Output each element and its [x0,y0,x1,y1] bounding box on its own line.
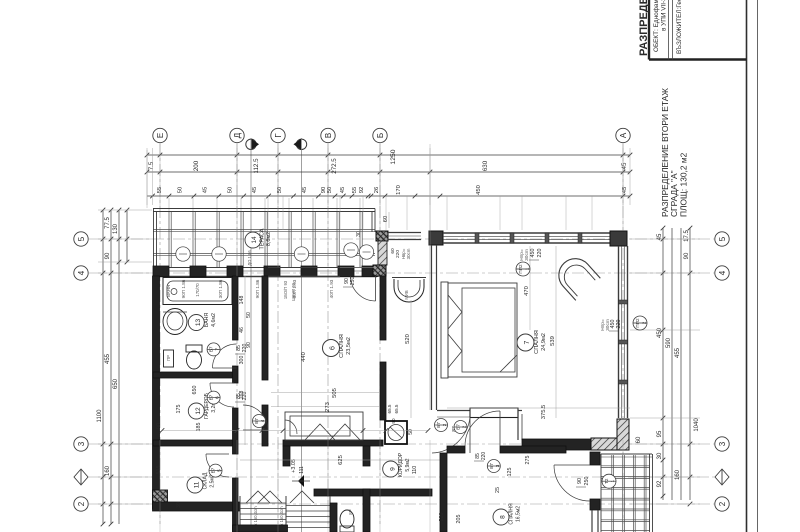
title block object line [653,0,668,52]
svg-text:5: 5 [718,236,727,241]
porch top window band [388,233,421,240]
svg-text:50: 50 [327,187,333,193]
axis bubble А [616,128,630,524]
svg-text:45: 45 [202,187,208,193]
svg-text:24,9м2: 24,9м2 [541,333,547,351]
SE wing west wall with terrace door [590,452,600,532]
svg-text:4: 4 [718,270,727,275]
lower wing north wall solid [522,439,592,450]
right dimension lines [636,226,700,507]
room 6 terrace door opening [340,268,376,302]
svg-text:455: 455 [675,347,681,358]
room 7 north window wall [443,233,610,243]
svg-text:470: 470 [524,286,530,296]
svg-text:275: 275 [525,456,531,465]
svg-text:1100: 1100 [97,409,103,423]
svg-text:3: 3 [495,464,500,467]
sheet trim edge line [757,0,759,532]
svg-text:4,6м2: 4,6м2 [211,313,217,327]
svg-text:ВЪЗЛОЖИТЕЛ:Георги Ив.: ВЪЗЛОЖИТЕЛ:Георги Ив. [676,0,683,54]
axis line А [622,143,624,524]
svg-text:220: 220 [481,452,487,461]
svg-text:30П 1.86: 30П 1.86 [218,279,223,298]
svg-text:В: В [324,133,333,138]
svg-text:ШКУП 30: ШКУП 30 [291,282,296,300]
svg-text:Б7: Б7 [456,424,461,430]
svg-text:110: 110 [412,466,418,475]
washbasin bath 13 [163,309,187,335]
svg-text:50: 50 [177,187,183,193]
left dimension lines [97,208,129,527]
lower wing north wall hatched L block [591,419,629,450]
west wall corner block SW [153,490,168,509]
washer box bath 13 [164,350,174,367]
south wall of rooms 11 [153,502,240,511]
door label B7-4 [253,415,266,428]
svg-text:6: 6 [330,346,337,350]
interior vertical guide lines lower [160,440,623,532]
room 7 label [517,330,547,354]
svg-text:МИВ: МИВ [404,290,409,299]
svg-text:4: 4 [77,270,86,275]
svg-text:13: 13 [195,319,202,327]
corridor dim chain [239,276,252,445]
top band extension lines [147,148,630,205]
entry strip window labels [390,248,411,259]
svg-text:112.5: 112.5 [253,158,260,174]
room 6 south wall [283,440,383,446]
svg-text:90: 90 [321,187,327,193]
svg-text:ПР: ПР [166,355,171,361]
hall lower walls [233,489,371,532]
svg-text:30cm: 30cm [406,248,411,259]
svg-text:300: 300 [239,356,245,365]
svg-text:450: 450 [530,249,536,258]
svg-text:30: 30 [356,231,362,237]
svg-text:90: 90 [577,478,583,484]
room 12 label [188,392,217,419]
room 7 armchair [552,252,600,300]
svg-text:КОРИДОР: КОРИДОР [398,452,404,477]
svg-text:x 160,4cm: x 160,4cm [279,506,284,526]
drawing title lines [660,88,689,217]
room 7 door arc [432,417,470,453]
svg-text:55: 55 [157,187,163,193]
svg-text:3: 3 [77,441,86,446]
svg-text:148: 148 [239,296,245,305]
dim 60 porch [383,212,389,228]
axis line diamond [88,476,715,478]
terrace border [153,209,375,268]
svg-text:25: 25 [495,487,501,493]
section cut marker left [246,138,259,532]
window labels top (small texts near top of rooms) [247,250,296,301]
svg-text:77.5: 77.5 [105,217,111,229]
room 7 east window wall [619,246,628,418]
svg-text:175: 175 [176,405,182,414]
svg-text:8: 8 [500,515,507,519]
top dimension line axes spacing [145,158,633,175]
svg-text:6: 6 [215,396,220,399]
WC toilet at hall [340,509,354,532]
svg-text:630: 630 [482,160,489,171]
room 8 north wall segments [447,446,566,453]
svg-text:90П 1.86: 90П 1.86 [181,279,186,298]
svg-text:8Р: 8Р [348,509,353,514]
section cut marker right [294,138,307,532]
svg-text:Т2: Т2 [604,478,609,484]
toilet bath 13 [186,345,202,369]
WC east wall [429,245,431,410]
room 6 door arc (from corridor) [243,405,268,430]
door label B7-2 room 7 [435,419,459,432]
svg-text:200: 200 [193,160,200,171]
svg-text:2: 2 [442,423,447,426]
svg-text:12: 12 [195,407,202,415]
svg-text:Б7: Б7 [489,463,494,469]
level mark +3.05 [291,459,310,487]
room 12 door arc [210,383,234,407]
axis diamond marker left [74,469,88,485]
svg-text:440: 440 [301,352,307,362]
svg-text:1040: 1040 [694,418,700,432]
hall door jamb stubs [283,446,370,466]
svg-text:Е: Е [156,133,165,138]
corridor 9 label [383,452,411,477]
svg-text:90: 90 [684,252,690,259]
svg-text:272.5: 272.5 [331,158,338,174]
svg-text:2: 2 [642,321,647,324]
svg-text:БАНЯ: БАНЯ [204,313,210,327]
axis line Г [277,143,279,524]
svg-text:ТЕРАСА: ТЕРАСА [260,228,266,249]
svg-text:55: 55 [352,187,358,193]
svg-text:26: 26 [374,187,380,193]
axis bubble В [321,128,335,524]
axis bubble 4 right [715,266,729,280]
svg-text:ПП2: ПП2 [518,264,523,274]
room 11 label [187,472,216,493]
svg-text:92: 92 [657,480,663,487]
svg-text:160: 160 [105,465,111,476]
svg-text:Б7: Б7 [254,418,259,424]
svg-text:45: 45 [302,187,308,193]
sheet inner border line [746,0,748,532]
svg-text:45: 45 [340,187,346,193]
svg-text:4: 4 [260,419,265,422]
svg-text:90: 90 [156,423,162,429]
axis bubble 3 left [74,437,88,451]
window label ПП2-2 [633,316,647,330]
svg-text:520: 520 [405,334,411,344]
corridor dims [240,455,440,474]
door label B7-5 [209,464,222,477]
svg-text:РАЗПРЕДЕЛЕНИЕ: РАЗПРЕДЕЛЕНИЕ [638,0,650,56]
axis line 5 [89,238,714,240]
corridor vertical dim [405,300,411,418]
west exterior wall [153,276,160,504]
svg-text:40П 1.93: 40П 1.93 [329,279,334,298]
room 7 bed [441,282,517,378]
shower box room 6 SE [385,421,414,444]
axis bubble 4 left [74,266,88,280]
svg-text:СПАЛНЯ: СПАЛНЯ [534,330,540,354]
svg-text:50: 50 [227,187,233,193]
svg-text:520: 520 [439,513,445,522]
svg-text:1: 1 [610,479,615,482]
svg-text:90П 1.86: 90П 1.86 [255,279,260,298]
room 11 dims [156,466,182,509]
svg-text:625: 625 [338,455,344,465]
svg-text:Б: Б [376,133,385,138]
axis bubble Г [271,128,285,524]
svg-text:+3.05: +3.05 [291,459,297,473]
axis bubble 5 right [715,232,729,246]
room 7 corner pier NW [429,231,443,245]
axis bubble Е [153,128,167,524]
svg-text:23,5м2: 23,5м2 [346,337,352,355]
svg-text:220: 220 [537,249,543,258]
axis line 4 [89,272,714,274]
entry strip bottom dims [387,404,399,423]
title block box [649,0,747,60]
svg-text:ПП2: ПП2 [635,318,640,328]
svg-text:539: 539 [550,336,556,346]
window height labels room 7 north [519,249,543,261]
svg-text:СКЛАД: СКЛАД [203,472,209,489]
axis bubble Б [373,128,387,524]
svg-text:46: 46 [239,327,245,333]
room 12 dims [156,386,202,432]
axis line 2 [89,503,714,505]
room 7 west wall [432,245,437,410]
svg-text:СПАЛНЯ: СПАЛНЯ [509,503,515,525]
axis bubble 2 left [74,497,88,511]
window frame blocks [153,266,378,277]
left band extension lines [98,210,152,504]
room 6 label [323,334,353,358]
svg-text:7: 7 [215,348,220,351]
bath 13 door arc [213,344,237,368]
SE terrace border [601,454,653,532]
room 8 door arc [465,411,500,446]
door label B7-7 [207,343,248,356]
svg-text:17.5: 17.5 [684,230,690,242]
axis diamond marker right [715,469,729,485]
room 8 west wall [440,453,447,532]
svg-text:9: 9 [389,467,396,471]
svg-text:170: 170 [396,185,402,195]
door label B7-2b [454,421,467,434]
staircase [240,491,330,532]
svg-text:16,5м2: 16,5м2 [516,506,522,522]
svg-text:Б7: Б7 [209,394,214,400]
terrace label circle ТЕРАСА [245,228,272,249]
axis line 3 [89,443,714,445]
svg-text:220: 220 [616,320,622,329]
door size 90/250 [576,477,590,488]
terrace door arc room 8 [554,465,590,501]
axis line В [327,143,329,524]
svg-text:455: 455 [105,353,111,364]
terrace ceiling light circles [176,243,374,261]
window label ПП2-1 [516,262,530,276]
svg-text:505: 505 [332,388,338,398]
svg-text:65.5: 65.5 [387,404,392,413]
svg-text:ОБЕКТ: Еднофамилна жил.: ОБЕКТ: Еднофамилна жил. [653,0,660,52]
svg-text:650: 650 [113,378,119,389]
svg-text:60: 60 [636,436,642,443]
terrace floor tiles [153,211,375,267]
svg-text:450: 450 [476,185,482,195]
svg-text:7: 7 [524,340,531,344]
svg-text:650: 650 [192,386,198,395]
corridor west wall (rooms 11-13 east wall) [233,276,239,532]
svg-text:ВАНЯ: ВАНЯ [166,285,171,297]
svg-text:111: 111 [299,466,305,474]
room 8 dims [439,456,531,524]
axis bubble 3 right [715,437,729,451]
svg-text:130: 130 [113,223,119,234]
room 6 dims [271,352,380,412]
svg-text:2: 2 [77,501,86,506]
svg-text:1250: 1250 [390,149,397,164]
axis bubble Д [230,128,244,524]
porch west wall hatched [378,241,387,265]
svg-text:1: 1 [525,267,530,270]
svg-text:2: 2 [718,501,727,506]
svg-text:А: А [619,132,628,138]
hall south wall [314,489,432,496]
svg-text:170/70: 170/70 [195,283,200,297]
svg-text:45: 45 [657,233,663,240]
porch hatched pier bottom [373,265,386,276]
door label B7-6 [207,391,248,404]
svg-text:7.5: 7.5 [148,161,155,170]
svg-text:ДО 1.86: ДО 1.86 [247,250,252,266]
svg-text:45: 45 [621,162,628,169]
svg-text:СПАЛНЯ: СПАЛНЯ [339,334,345,358]
svg-text:11: 11 [194,481,201,488]
interior construction lines [147,144,623,276]
room 7 inner dims [447,246,630,419]
svg-text:273: 273 [325,402,331,412]
svg-text:450: 450 [657,327,663,338]
svg-text:3: 3 [718,441,727,446]
svg-text:590: 590 [666,337,672,348]
svg-text:250: 250 [584,477,590,486]
room 8 label [493,503,522,525]
door label B7-3 [474,452,500,473]
room 11 door arc [206,454,229,477]
room 6 west wall [262,276,268,446]
room 6 bed [285,412,363,440]
svg-text:185: 185 [196,423,202,432]
svg-text:Б7: Б7 [211,467,216,473]
top dimension line detail [147,185,632,198]
svg-text:8,6м2: 8,6м2 [266,232,272,246]
axis line Б [379,143,381,524]
svg-text:СГРАДА "А": СГРАДА "А" [669,170,679,217]
svg-text:Б7: Б7 [436,422,441,428]
svg-text:в УПИ VII-345: в УПИ VII-345 [661,0,668,31]
interior dim line hall top [160,428,431,433]
room 13 label [188,313,217,331]
window size labels [181,279,334,298]
svg-text:90: 90 [105,252,111,259]
svg-text:90: 90 [246,342,252,348]
svg-text:Б7: Б7 [209,346,214,352]
svg-text:95: 95 [657,430,663,437]
right band extension lines [630,239,700,504]
svg-text:45: 45 [252,187,258,193]
svg-text:65.5: 65.5 [394,404,399,413]
svg-text:30: 30 [657,452,663,459]
svg-text:50: 50 [246,312,252,318]
svg-text:5: 5 [77,236,86,241]
room 6 north window wall [268,268,340,277]
svg-text:Д: Д [233,132,242,138]
axis line Д [236,143,238,524]
tile joint extension lines [169,198,360,211]
window band south of terrace [153,268,377,277]
svg-text:160: 160 [675,469,681,480]
svg-text:50: 50 [408,429,414,435]
room 7 corner pier NE [610,231,627,246]
svg-text:125: 125 [507,468,513,477]
svg-text:535: 535 [156,466,162,475]
axis bubble 5 left [74,232,88,246]
SE terrace door label circle [602,474,616,488]
window height labels room 7 east [600,319,622,331]
south wall jog to lower wing [518,410,522,440]
svg-text:250: 250 [350,277,356,286]
svg-text:5: 5 [217,469,222,472]
svg-text:168: 168 [239,391,245,400]
room 7 south wall with door opening [437,408,522,418]
bathtub [163,278,232,305]
svg-text:92: 92 [359,187,365,193]
svg-text:14: 14 [251,236,258,244]
axis bubble 2 right [715,497,729,511]
svg-text:x 160,4cm: x 160,4cm [253,506,258,526]
svg-text:Г: Г [274,133,283,138]
room 6 east wall [380,276,386,420]
wall between bath 13 and room 12 [153,372,237,378]
SE terrace tiles [601,455,650,532]
WC toilet (horseshoe) [392,278,426,303]
top dimension line overall [145,149,633,164]
svg-text:ПЛОЩ: 130,2 м2: ПЛОЩ: 130,2 м2 [679,152,689,217]
svg-text:1БО/П 93: 1БО/П 93 [283,280,288,299]
svg-text:30: 30 [176,502,182,508]
svg-text:375.5: 375.5 [541,405,547,420]
axis line Е [159,143,161,524]
svg-text:205: 205 [456,515,462,524]
porch hatched pier left [376,231,388,241]
svg-text:2: 2 [462,425,467,428]
wall between room 12 and room 11 [153,440,237,446]
